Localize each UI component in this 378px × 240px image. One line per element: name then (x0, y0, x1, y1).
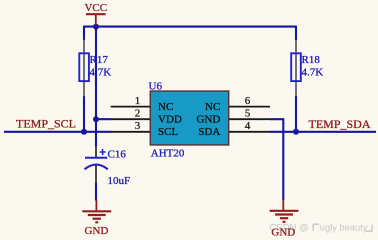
wire C16 bottom (95, 183, 97, 201)
junction SCL (81, 129, 87, 135)
wire R18 bottom (295, 96, 297, 132)
wire VCC down to C16 (95, 27, 97, 147)
svg-text:6: 6 (245, 95, 251, 107)
svg-text:NC: NC (205, 101, 220, 113)
wire R18 top (295, 26, 297, 40)
pin 2 (111, 118, 151, 120)
ground GND right (270, 200, 299, 239)
pin 5 (229, 118, 270, 120)
svg-text:2: 2 (135, 108, 141, 120)
svg-text:R17: R17 (90, 54, 109, 66)
wire R17 top (83, 26, 85, 40)
svg-text:SDA: SDA (198, 126, 220, 138)
svg-text:SCL: SCL (158, 126, 178, 138)
svg-text:NC: NC (158, 101, 173, 113)
svg-text:GND: GND (196, 114, 220, 126)
resistor R18 (291, 40, 323, 97)
svg-text:C16: C16 (108, 149, 127, 161)
wire SDA TEMP_SDA (270, 131, 376, 133)
svg-text:R18: R18 (302, 54, 321, 66)
svg-text:ugly beauty: ugly beauty (320, 223, 368, 233)
pin 6 (229, 106, 270, 108)
wire GND from pin5 (270, 119, 283, 200)
wire top rail VCC (84, 26, 296, 28)
svg-text:GND: GND (84, 225, 108, 237)
svg-text:VCC: VCC (84, 2, 107, 14)
wire TEMP_SCL (4, 131, 111, 133)
svg-text:TEMP_SDA: TEMP_SDA (309, 117, 371, 131)
svg-text:5: 5 (245, 108, 251, 120)
svg-text:TEMP_SCL: TEMP_SCL (16, 116, 76, 130)
ground GND left (82, 200, 111, 237)
svg-text:VDD: VDD (158, 114, 182, 126)
junction SDA (293, 129, 299, 135)
wire R17 bottom to TEMP_SCL (83, 96, 85, 132)
svg-text:1: 1 (135, 95, 141, 107)
svg-text:GND: GND (271, 226, 295, 238)
svg-text:4: 4 (245, 120, 251, 132)
junction VCC (93, 24, 99, 30)
watermark CSDN @ ugly beauty (270, 223, 373, 234)
junction VDD (93, 116, 99, 122)
pin 3 (111, 131, 151, 133)
pin 4 (229, 131, 270, 133)
svg-text:4.7K: 4.7K (90, 66, 112, 78)
svg-text:10uF: 10uF (108, 175, 131, 187)
IC body U6 (150, 91, 229, 145)
svg-text:U6: U6 (149, 80, 163, 92)
power port VCC (84, 2, 107, 25)
capacitor C16 (85, 146, 131, 187)
svg-text:AHT20: AHT20 (151, 148, 185, 160)
pin 1 (111, 106, 151, 108)
resistor R17 (79, 40, 111, 97)
wire VDD stub (96, 118, 111, 120)
svg-text:4.7K: 4.7K (302, 66, 324, 78)
op IC U6 AHT20 (111, 80, 270, 159)
svg-text:3: 3 (135, 120, 141, 132)
